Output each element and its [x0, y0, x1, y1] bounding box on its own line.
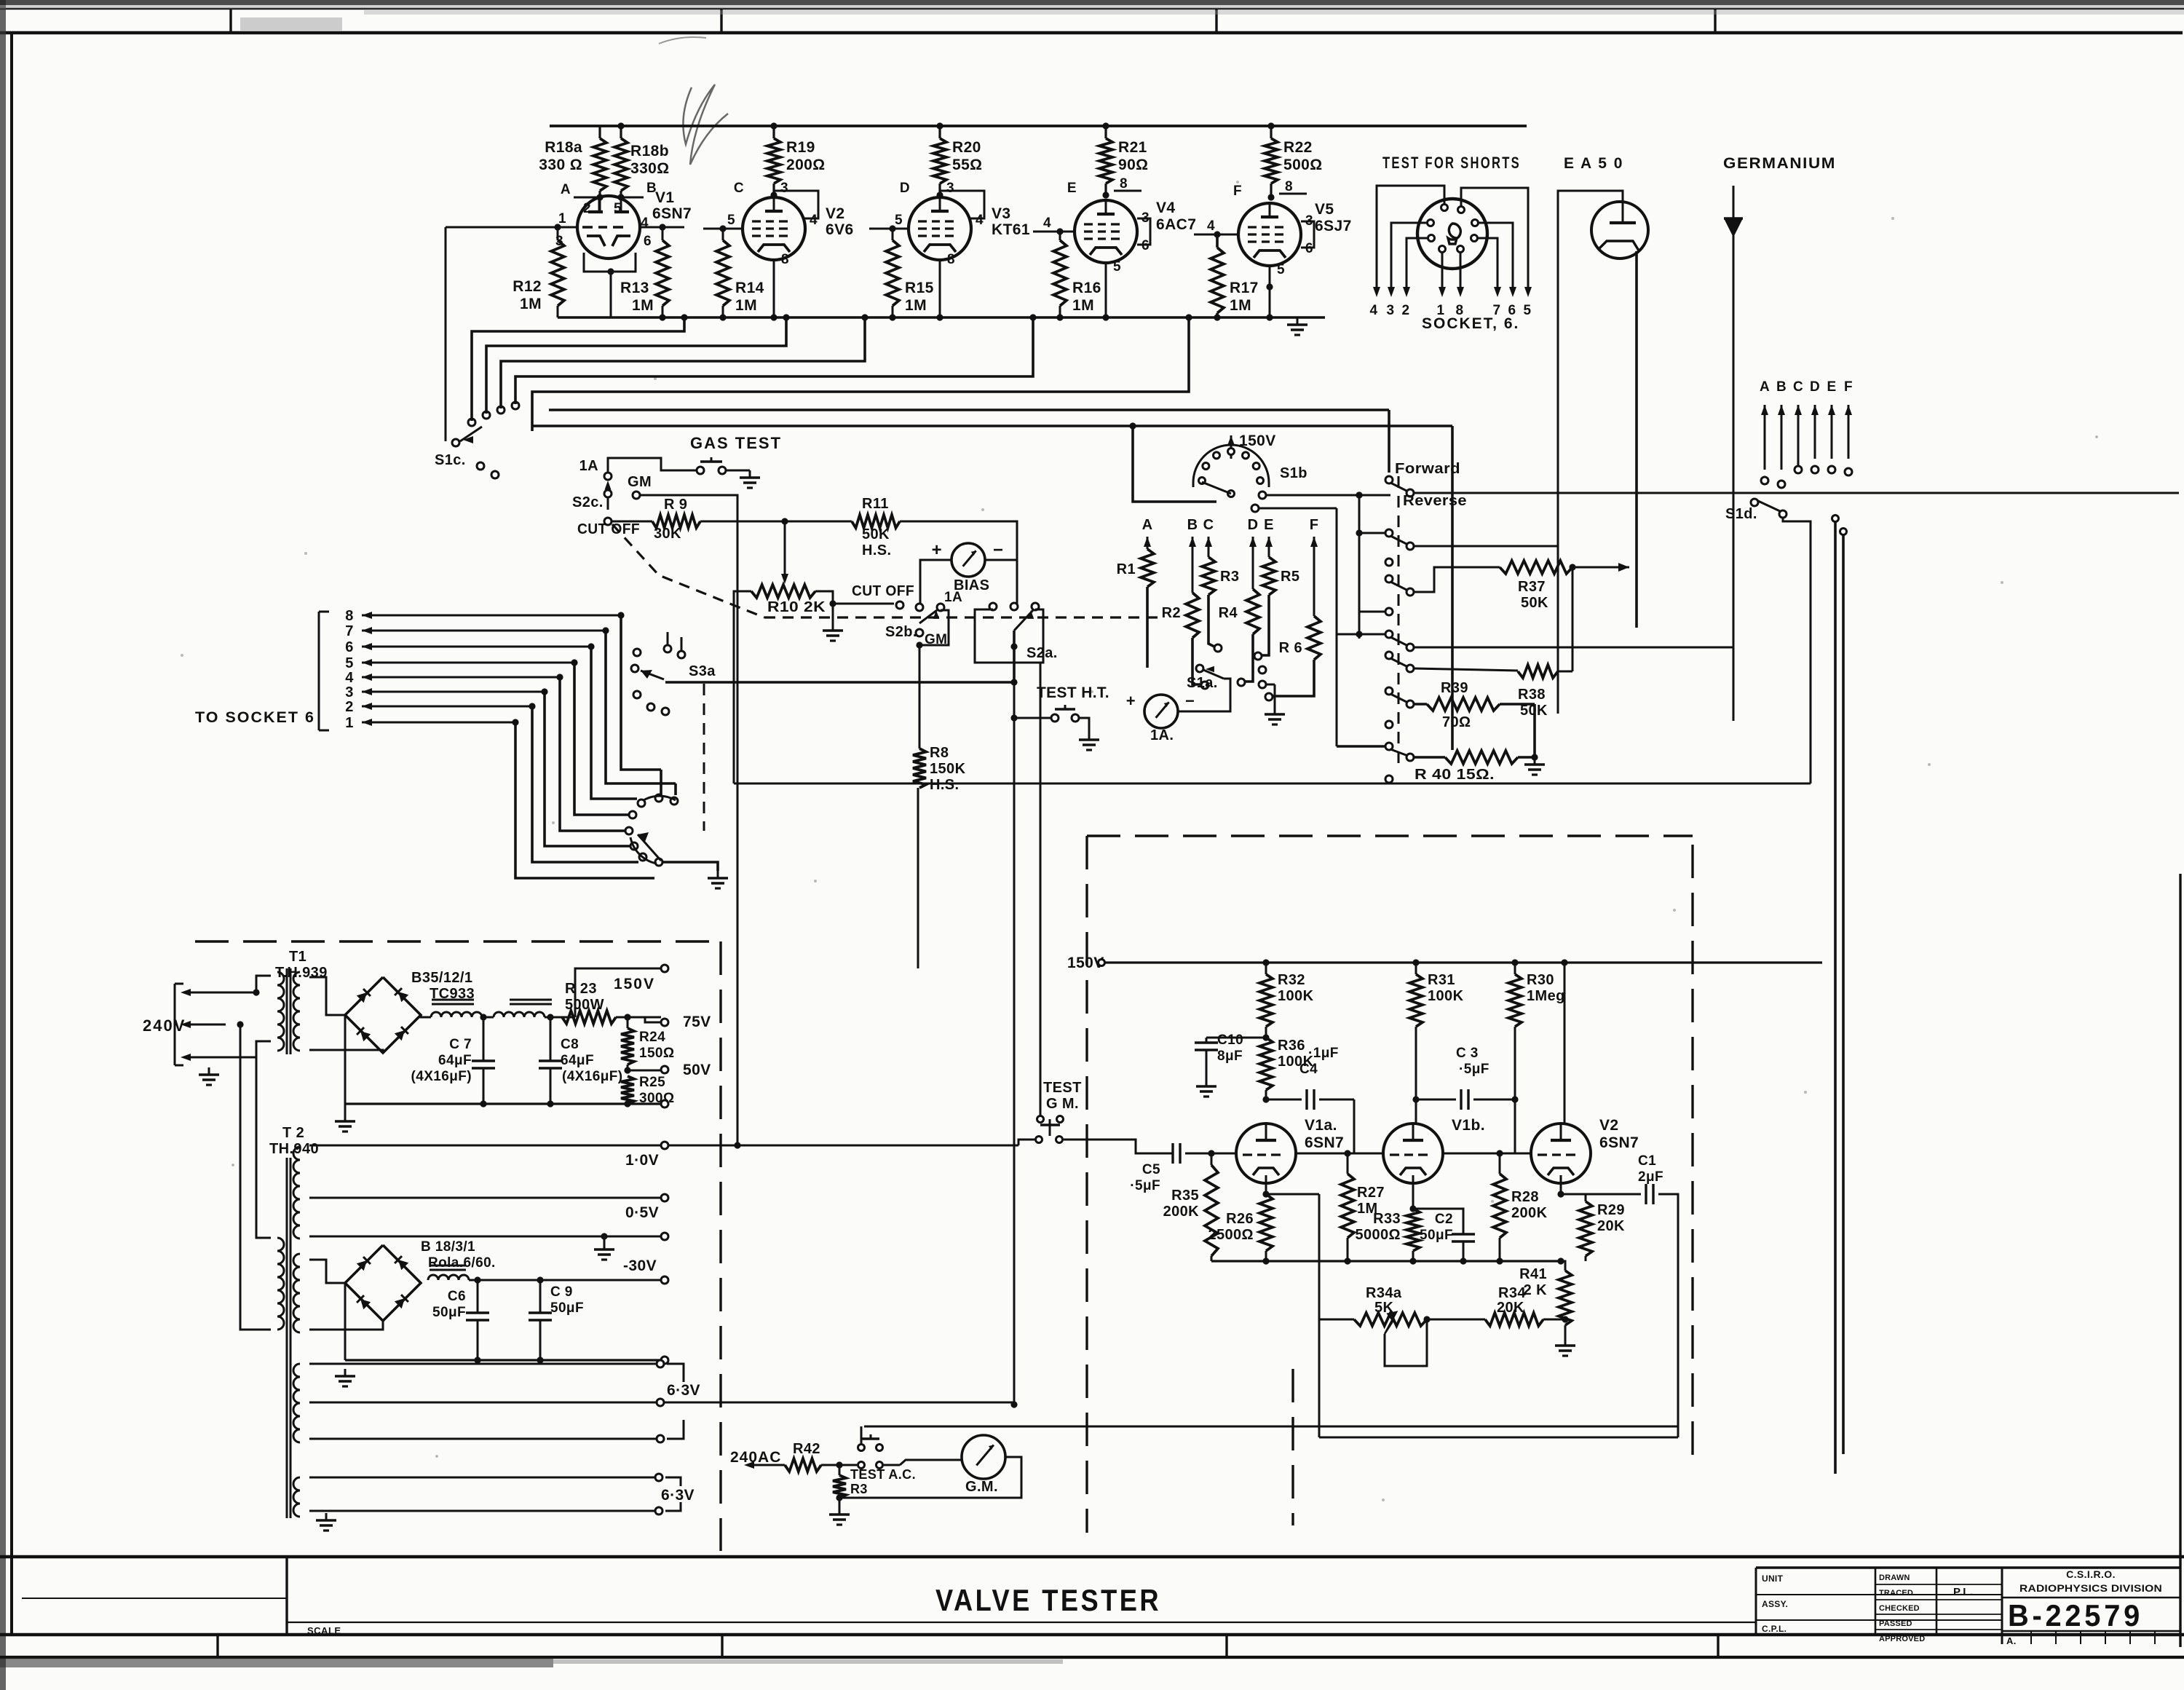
bracket 63b — [665, 1477, 681, 1511]
svg-text:R1: R1 — [1117, 561, 1136, 577]
svg-text:100K: 100K — [1278, 988, 1314, 1004]
wire r41 — [1560, 1260, 1562, 1262]
svg-text:1M: 1M — [735, 297, 757, 314]
wire bias left — [920, 560, 951, 604]
wire gm loop — [839, 1457, 1021, 1498]
svg-text:1A.: 1A. — [1150, 727, 1174, 743]
ground S3b — [708, 871, 728, 888]
bracket 63a — [667, 1364, 684, 1439]
ground R3 — [829, 1498, 850, 1525]
csiro box line1 — [2002, 1597, 2180, 1598]
wire V2 pin5 — [703, 213, 743, 232]
svg-text:3: 3 — [345, 684, 354, 700]
svg-text:C5: C5 — [1142, 1162, 1160, 1177]
label UNIT — [1762, 1573, 1784, 1584]
svg-text:6: 6 — [1142, 238, 1150, 253]
pin 3 label — [555, 234, 563, 249]
wire button-line long — [864, 1426, 1678, 1428]
svg-text:R17: R17 — [1230, 280, 1259, 296]
svg-text:75V: 75V — [683, 1014, 711, 1030]
title cell thin line left — [22, 1598, 287, 1599]
svg-text:4: 4 — [1207, 218, 1215, 234]
resistor R3 — [1202, 557, 1239, 652]
label DRAWN — [1879, 1573, 1910, 1582]
label S1b — [1280, 465, 1307, 481]
resistor R34 20K — [1485, 1313, 1561, 1326]
svg-text:S3a: S3a — [689, 663, 716, 679]
svg-text:A: A — [1760, 379, 1770, 395]
switch S1c — [452, 427, 482, 446]
S1b dial arc — [1193, 445, 1269, 487]
tube V2 — [743, 197, 805, 260]
wire V5 pin4 — [1194, 218, 1239, 234]
tube V5 — [1238, 203, 1301, 266]
label B35/12/1 — [411, 970, 475, 1002]
border tick top 4 — [1714, 9, 1716, 33]
svg-text:R5: R5 — [1281, 569, 1299, 585]
svg-text:TEST H.T.: TEST H.T. — [1037, 684, 1109, 701]
svg-text:6: 6 — [345, 639, 354, 655]
resistor R14 — [716, 229, 729, 317]
T2 sec D — [293, 1477, 300, 1517]
tapgnd2 — [309, 1233, 668, 1240]
label R34 20K — [1497, 1285, 1526, 1316]
240V bracket — [175, 984, 183, 1065]
svg-text:1·0V: 1·0V — [625, 1152, 659, 1169]
resistor R32 100K — [1259, 963, 1273, 1041]
switch S1d — [1751, 499, 1787, 518]
svg-text:H.S.: H.S. — [930, 777, 960, 793]
resistor R18b — [614, 122, 628, 197]
svg-text:50μF: 50μF — [432, 1305, 466, 1320]
psu common rail — [345, 1100, 661, 1107]
capacitor C9 — [529, 1276, 552, 1360]
label 1A s2c — [579, 458, 598, 474]
meter 1A — [1126, 692, 1195, 743]
title strip scale line — [287, 1622, 1756, 1623]
svg-text:CUT OFF: CUT OFF — [577, 521, 640, 537]
label R36 100K — [1278, 1038, 1314, 1070]
wire meter left — [1134, 668, 1147, 711]
svg-text:GERMANIUM: GERMANIUM — [1723, 155, 1836, 172]
wire bridge-choke — [421, 1015, 431, 1017]
svg-text:3: 3 — [780, 181, 788, 196]
border tick bottom 4 — [1717, 1635, 1719, 1657]
svg-text:B: B — [1187, 517, 1198, 533]
tap 50V — [661, 1062, 711, 1078]
svg-text:4: 4 — [810, 213, 818, 228]
wire s2a down — [1010, 684, 1017, 722]
resistor R16 — [1053, 232, 1067, 317]
arrow C — [1205, 537, 1212, 557]
label R41 2K — [1519, 1266, 1547, 1298]
resistor R17 — [1211, 231, 1224, 317]
tap 75V — [628, 1014, 711, 1030]
label R18a 330Ω — [539, 139, 582, 173]
wire v1b anode right — [1443, 1150, 1531, 1156]
svg-text:S1a.: S1a. — [1187, 675, 1218, 691]
svg-text:R10 2K: R10 2K — [767, 599, 826, 615]
svg-text:R22: R22 — [1283, 139, 1313, 156]
svg-text:200K: 200K — [1163, 1204, 1200, 1220]
pin 1 label — [558, 211, 566, 226]
label Reverse — [1403, 493, 1467, 509]
svg-text:B35/12/1: B35/12/1 — [411, 970, 472, 986]
label 150Vo — [1067, 955, 1105, 971]
resistor R1 — [1117, 549, 1154, 668]
wire R8 to 150V — [917, 788, 919, 968]
svg-text:6SN7: 6SN7 — [652, 205, 692, 222]
240V arrows — [181, 989, 240, 1061]
svg-text:150Ω: 150Ω — [639, 1046, 675, 1061]
svg-text:PASSED: PASSED — [1879, 1619, 1912, 1628]
svg-text:V1b.: V1b. — [1452, 1117, 1485, 1134]
svg-text:6: 6 — [1305, 241, 1313, 256]
svg-text:1A: 1A — [944, 590, 962, 605]
choke 2 — [421, 1275, 469, 1283]
arrow A — [1144, 537, 1151, 549]
wire cutoff-R9 — [612, 521, 652, 523]
svg-text:R15: R15 — [905, 280, 934, 296]
svg-text:RADIOPHYSICS DIVISION: RADIOPHYSICS DIVISION — [2019, 1582, 2162, 1594]
label R19 200Ω — [786, 139, 825, 173]
label APPROVED — [1879, 1635, 1925, 1643]
switch S2b — [916, 590, 962, 623]
svg-text:R8: R8 — [930, 745, 949, 761]
EA50 top wire — [1558, 191, 1623, 714]
ground R10 — [823, 604, 843, 641]
V3 screen box — [940, 191, 984, 218]
wire fwd-ea50 path — [1527, 191, 1558, 493]
socket6 row numbers — [345, 608, 354, 731]
psu2 rail — [345, 1357, 668, 1364]
wire cutoff2 — [833, 603, 894, 605]
label C8 64uF — [561, 1037, 622, 1084]
V1 pin wires — [600, 197, 621, 212]
wire v1a k right — [1266, 1193, 1319, 1196]
dashed S2 gang — [612, 524, 1158, 617]
svg-text:30K: 30K — [654, 526, 681, 542]
gas test button — [664, 457, 750, 474]
svg-text:R 6: R 6 — [1279, 640, 1302, 656]
wire bridge gnd — [344, 1015, 346, 1104]
s2c gm contact — [633, 491, 640, 499]
switch S3a contacts — [631, 645, 685, 715]
svg-text:F: F — [1233, 183, 1242, 199]
svg-text:R 23: R 23 — [565, 981, 597, 997]
svg-text:1M: 1M — [520, 296, 542, 312]
resistor R3 — [833, 1465, 846, 1501]
wire t2 primary bot — [256, 1238, 271, 1330]
svg-text:64μF: 64μF — [438, 1053, 472, 1068]
wire v1 pin1 drop — [388, 227, 446, 441]
svg-text:R34: R34 — [1498, 1285, 1526, 1301]
svg-text:R14: R14 — [735, 280, 764, 296]
svg-text:S2b.: S2b. — [885, 624, 917, 640]
label C1 2uF — [1638, 1153, 1663, 1185]
socket key — [1448, 224, 1460, 244]
S1d contacts — [1761, 466, 1852, 488]
r34a wiper tail — [1385, 1312, 1427, 1366]
label A col — [1142, 517, 1153, 533]
wire R1 down — [1147, 626, 1148, 684]
wire v1a cathode — [1262, 1175, 1269, 1198]
wire choke out — [545, 1014, 575, 1020]
svg-text:KT61: KT61 — [992, 221, 1030, 238]
ground tap — [594, 1236, 614, 1260]
wire R38 right riser — [1558, 567, 1572, 671]
S1b right contact1 — [1259, 491, 1390, 499]
capacitor C6 — [466, 1276, 489, 1360]
border tick bottom 2 — [721, 1635, 723, 1657]
node D pin3 — [900, 181, 954, 199]
capacitor C5 — [1136, 1126, 1194, 1164]
lone contact c — [1385, 775, 1393, 783]
label D col — [1248, 517, 1259, 533]
switch S3a arm — [641, 670, 664, 679]
label CUT OFF s2c — [577, 521, 640, 537]
svg-text:6·3V: 6·3V — [667, 1382, 700, 1399]
svg-text:B: B — [1776, 379, 1787, 395]
wire R1-A meterleft — [1138, 626, 1147, 699]
label R34a 5K — [1366, 1285, 1402, 1316]
wire t2 primary top — [256, 1047, 271, 1238]
svg-text:E: E — [1067, 181, 1077, 196]
wire V4 pin4 — [1033, 216, 1075, 235]
wire bridge out top — [383, 960, 431, 977]
wire bias right — [985, 560, 1017, 607]
label C2 50uF — [1420, 1212, 1453, 1243]
label CSIRO — [2066, 1568, 2116, 1580]
wire p3 — [1388, 566, 1390, 575]
svg-text:8: 8 — [781, 252, 789, 267]
sheet border left edge — [0, 0, 6, 1690]
svg-text:V2: V2 — [1599, 1117, 1619, 1134]
socket6 staircase drops — [512, 612, 676, 878]
svg-text:R18b: R18b — [630, 143, 669, 159]
wire bottom long 1076 — [734, 783, 1811, 785]
node A pin2 — [561, 182, 604, 216]
svg-text:R41: R41 — [1519, 1266, 1547, 1282]
wire V3 pin5 — [869, 213, 909, 232]
label SCALE — [307, 1625, 341, 1636]
svg-text:5: 5 — [1277, 262, 1285, 277]
svg-text:A: A — [561, 182, 571, 197]
svg-text:3: 3 — [946, 181, 954, 196]
svg-text:6·3V: 6·3V — [661, 1487, 695, 1504]
svg-text:4: 4 — [1370, 303, 1378, 318]
tube V1 — [577, 196, 640, 258]
svg-text:70Ω: 70Ω — [1442, 714, 1471, 730]
svg-text:TRACED: TRACED — [1879, 1589, 1913, 1598]
label R29 20K — [1597, 1202, 1625, 1234]
svg-text:B-22579: B-22579 — [2008, 1598, 2143, 1632]
S1c contacts — [468, 402, 519, 478]
label R35 200K — [1163, 1188, 1200, 1220]
S1d lower contacts — [1832, 516, 1847, 535]
svg-text:50V: 50V — [683, 1062, 711, 1078]
wire run y563 to Forward — [549, 410, 1389, 473]
label C9 — [550, 1284, 584, 1316]
tap gnd0 — [661, 1100, 668, 1107]
resistor R25 300 — [621, 1075, 675, 1106]
resistor R21 — [1099, 122, 1112, 197]
test ht button — [1014, 705, 1099, 750]
svg-text:·1μF: ·1μF — [1308, 1046, 1339, 1061]
svg-text:+: + — [932, 540, 942, 560]
V2 screen box — [774, 191, 818, 218]
transformer T1 — [277, 968, 300, 1054]
svg-text:C: C — [734, 181, 744, 196]
svg-text:R31: R31 — [1428, 972, 1455, 988]
bridge neg to rail — [344, 1015, 347, 1104]
R10 right junction — [815, 591, 836, 607]
s2b GM contact — [916, 629, 947, 647]
svg-text:8: 8 — [345, 608, 354, 624]
bridge B35/12/1 — [345, 977, 421, 1053]
socket arrows — [1373, 287, 1532, 297]
node C pin3 — [734, 181, 788, 199]
svg-text:V5: V5 — [1315, 201, 1334, 218]
svg-text:−: − — [993, 540, 1003, 560]
T2 sec A — [293, 1147, 300, 1239]
wire s3b common — [662, 862, 718, 871]
wire c3 to v2 grid — [1515, 1099, 1531, 1153]
wire R1 to s1a — [1147, 667, 1196, 668]
label GAS TEST — [690, 434, 782, 452]
label TEST FOR SHORTS — [1382, 154, 1521, 172]
diode germanium — [1724, 186, 1743, 721]
label B col — [1187, 517, 1198, 533]
csiro box line2 — [2002, 1630, 2180, 1632]
wire R23 right — [616, 1014, 661, 1020]
ground R38-R40 node — [1524, 757, 1545, 775]
svg-text:S2a.: S2a. — [1026, 645, 1058, 661]
label TEST AC — [850, 1467, 916, 1482]
switch p6 — [1385, 652, 1414, 672]
label C3 — [1456, 1046, 1489, 1077]
svg-text:3: 3 — [1305, 213, 1313, 229]
title cell divider — [285, 1557, 288, 1635]
S1b right contact2 — [1251, 505, 1337, 512]
svg-text:R21: R21 — [1118, 139, 1147, 156]
wire bridge bottom — [345, 1053, 383, 1099]
svg-text:+: + — [1126, 692, 1136, 710]
resistor R28 200K — [1493, 1153, 1506, 1261]
svg-text:20K: 20K — [1497, 1300, 1524, 1316]
wire 6.3V heater run — [664, 1402, 1014, 1404]
svg-text:E: E — [1827, 379, 1836, 395]
laminations — [432, 1000, 552, 1004]
svg-text:50μF: 50μF — [550, 1300, 584, 1316]
wire bus drop — [1560, 1261, 1562, 1267]
ground PSU2 — [335, 1360, 355, 1386]
border tick top 1 — [229, 9, 232, 33]
sheet border top outer line — [0, 8, 2184, 9]
wire t2p2 — [240, 1024, 271, 1330]
svg-text:3: 3 — [1142, 210, 1150, 226]
drawing number B-22579 — [2008, 1598, 2143, 1632]
svg-text:4: 4 — [641, 216, 649, 231]
svg-text:TEST FOR SHORTS: TEST FOR SHORTS — [1382, 154, 1521, 172]
svg-text:200K: 200K — [1511, 1205, 1548, 1221]
svg-text:R 9: R 9 — [664, 497, 687, 513]
label V3 KT61 — [992, 205, 1030, 238]
tap 6.3V b1 — [309, 1474, 662, 1481]
wire t2 prim bottom — [256, 1329, 277, 1330]
svg-text:C: C — [1793, 379, 1803, 395]
label R32 100K — [1278, 972, 1314, 1004]
label S2a — [1026, 645, 1058, 661]
wire V1 pin1 — [446, 224, 577, 230]
wire R10 arrow — [781, 521, 788, 584]
svg-text:R36: R36 — [1278, 1038, 1305, 1054]
switch p5 — [1359, 608, 1393, 615]
svg-text:S1b: S1b — [1280, 465, 1307, 481]
wire v2 cathode — [1557, 1175, 1564, 1198]
sheet border left — [10, 33, 13, 1635]
socket wire pin-r2 — [1477, 238, 1497, 291]
svg-text:R19: R19 — [786, 139, 815, 156]
node B pin5 — [614, 181, 657, 216]
socket wire pin-l1 — [1391, 223, 1428, 291]
wire 1A to gastest — [608, 458, 696, 473]
socket6 bracket — [319, 612, 329, 730]
wire R37 right arrow — [1569, 563, 1629, 572]
wire v1b cathode — [1409, 1175, 1416, 1212]
top smudge — [0, 0, 2184, 165]
svg-text:R39: R39 — [1441, 680, 1468, 696]
wire v2140 — [1557, 408, 1559, 714]
socket wire pin-b1 — [1441, 252, 1444, 291]
svg-text:4: 4 — [1043, 216, 1051, 231]
label F col — [1310, 517, 1319, 533]
switch S3b arm — [638, 832, 661, 861]
arrow F — [1310, 537, 1318, 616]
svg-text:(4X16μF): (4X16μF) — [562, 1069, 622, 1084]
wire R38 left — [1414, 668, 1518, 671]
svg-text:R32: R32 — [1278, 972, 1305, 988]
wire 1.0V to testgm — [668, 1140, 1034, 1145]
svg-text:6AC7: 6AC7 — [1156, 216, 1196, 233]
s3a stubs — [668, 632, 681, 651]
T2 sec C — [293, 1364, 300, 1442]
label B18/3/1 — [421, 1239, 496, 1271]
lone contact b — [1385, 721, 1393, 728]
svg-text:1A: 1A — [579, 458, 598, 474]
tube V1a — [1236, 1124, 1296, 1183]
label V1 6SN7 — [652, 189, 692, 222]
wire R42 right — [821, 1460, 962, 1469]
label TRACED — [1879, 1589, 1913, 1598]
capacitor C10 — [1195, 1038, 1266, 1097]
wire fwd to ea50 — [1527, 306, 1558, 493]
sheet border top inner line — [0, 31, 2183, 35]
wire 240 low — [240, 1047, 271, 1057]
wire V1 pin4 — [640, 224, 684, 230]
label SOCKET 6 — [1422, 315, 1519, 332]
title block box — [1756, 1568, 2180, 1647]
svg-text:R20: R20 — [952, 139, 981, 156]
socket pin numbers — [1370, 303, 1532, 318]
resistor R23 500W — [562, 981, 616, 1024]
svg-text:R11: R11 — [862, 496, 889, 512]
ground T2 bottom — [309, 1511, 336, 1531]
resistor R36 100K — [1259, 1038, 1273, 1103]
meter BIAS — [932, 540, 1004, 593]
svg-text:V1a.: V1a. — [1305, 1117, 1337, 1134]
tube V4 — [1075, 200, 1137, 263]
